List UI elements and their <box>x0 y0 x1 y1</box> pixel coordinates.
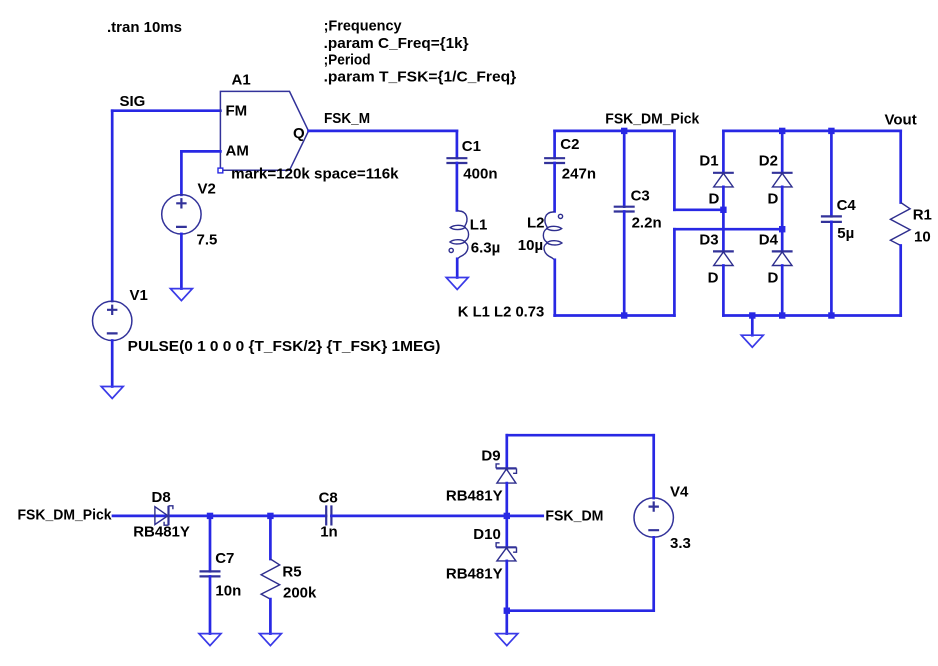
wire D10 base down <box>505 561 508 611</box>
svg-text:C7: C7 <box>215 550 234 567</box>
voltage source V4 <box>634 498 673 537</box>
wire SIG vertical to V1 <box>111 111 114 301</box>
svg-text:400n: 400n <box>463 166 497 183</box>
schottky diode D9 <box>496 464 516 483</box>
svg-text:2.2n: 2.2n <box>632 215 662 232</box>
svg-text:D4: D4 <box>759 231 779 248</box>
inductor L1 <box>449 210 468 259</box>
wire D4 base down <box>781 266 784 316</box>
svg-text:D: D <box>709 190 720 207</box>
wire C7 to ground <box>209 576 212 633</box>
wire C8 right to FSK_DM stub <box>331 515 542 518</box>
svg-text:AM: AM <box>226 142 249 159</box>
wire C4 top pin <box>830 131 833 216</box>
wire AM vertical to V2 <box>180 151 183 194</box>
svg-text:5µ: 5µ <box>837 225 854 242</box>
inductor L2 <box>543 211 562 260</box>
wire D2 base through node B to D4 <box>781 187 784 252</box>
capacitor C3 <box>614 207 635 212</box>
wire V4 top pin <box>652 435 655 498</box>
wire top rail Vout <box>723 130 900 133</box>
svg-text:L2: L2 <box>527 215 545 232</box>
wire D1 base to D3 bar <box>722 187 725 252</box>
capacitor C7 <box>200 571 221 576</box>
wire bottom rail bottom circuit <box>507 609 654 612</box>
junction node B <box>779 226 785 232</box>
svg-text:D3: D3 <box>699 231 718 248</box>
capacitor C4 <box>821 216 842 222</box>
ground below bridge <box>741 335 763 347</box>
wire V2 to ground <box>180 234 183 289</box>
junction D2 top <box>779 128 785 134</box>
junction bottom rail ground <box>504 608 510 614</box>
svg-text:V2: V2 <box>198 180 216 197</box>
wire D3 base down <box>722 266 725 316</box>
wire L2 down to bottom rail <box>553 260 556 316</box>
svg-text:R1: R1 <box>913 207 932 224</box>
svg-text:;Frequency: ;Frequency <box>324 18 403 35</box>
wire R1 top pin <box>899 131 902 203</box>
svg-text:D9: D9 <box>481 447 500 464</box>
unconnected pin marker A1 bottom-left <box>218 168 223 173</box>
modulator A1 body <box>220 91 308 170</box>
wire C1 to L1 <box>456 163 459 210</box>
wire tank bottom rail <box>555 314 675 317</box>
svg-text:D1: D1 <box>699 153 718 170</box>
resistor R1 <box>890 203 910 246</box>
diode D2 <box>772 173 793 187</box>
svg-text:K L1 L2 0.73: K L1 L2 0.73 <box>458 304 545 321</box>
diode D1 <box>713 173 734 187</box>
svg-text:1n: 1n <box>320 523 338 540</box>
svg-text:D8: D8 <box>152 489 171 506</box>
svg-text:200k: 200k <box>283 585 317 602</box>
svg-text:V1: V1 <box>130 287 148 304</box>
svg-text:RB481Y: RB481Y <box>446 488 503 505</box>
svg-text:.tran 10ms: .tran 10ms <box>107 19 182 36</box>
resistor R5 <box>261 559 280 599</box>
junction C3 bottom <box>621 312 627 318</box>
capacitor C8 <box>326 505 331 525</box>
svg-text:10µ: 10µ <box>518 237 543 254</box>
wire tank bottom up <box>673 229 676 315</box>
svg-text:R5: R5 <box>282 563 301 580</box>
svg-text:10n: 10n <box>215 582 241 599</box>
junction node A <box>720 207 726 213</box>
svg-text:Vout: Vout <box>885 111 917 128</box>
svg-text:FM: FM <box>226 103 248 120</box>
capacitor C1 <box>446 158 467 163</box>
wire V4 bottom pin <box>652 537 655 610</box>
junction R5 branch <box>267 513 273 519</box>
wire to C1 top <box>456 131 459 158</box>
wire C2 to L2 <box>553 163 556 211</box>
junction D4 bottom <box>779 312 785 318</box>
junction C4 bottom <box>828 312 834 318</box>
wire ground stub bridge <box>751 316 754 336</box>
ground below V2 <box>170 289 192 301</box>
svg-text:D: D <box>768 190 779 207</box>
wire top rail bottom circuit <box>507 434 654 437</box>
svg-text:.param T_FSK={1/C_Freq}: .param T_FSK={1/C_Freq} <box>324 69 517 86</box>
wire D2 top <box>781 131 784 173</box>
svg-text:D: D <box>708 269 719 286</box>
wire D9 base to D10 <box>505 483 508 548</box>
svg-text:V4: V4 <box>670 484 689 501</box>
wire R1 bottom pin <box>899 246 902 316</box>
svg-text:L1: L1 <box>470 216 488 233</box>
wire C3 bottom pin <box>623 212 626 316</box>
svg-text:7.5: 7.5 <box>197 232 218 249</box>
junction C7 branch <box>207 513 213 519</box>
svg-text:C2: C2 <box>560 136 579 153</box>
wire L1 to ground <box>456 259 459 278</box>
wire C4 bottom pin <box>830 222 833 316</box>
schottky diode D10 <box>496 543 516 561</box>
svg-text:D: D <box>768 269 779 286</box>
ground below V1 <box>101 387 123 399</box>
wire R5 to ground <box>269 599 272 634</box>
wire FSK_DM_Pick to C8 left plate <box>113 515 326 518</box>
svg-text:10: 10 <box>914 228 931 245</box>
svg-text:C1: C1 <box>462 138 481 155</box>
junction C4 top <box>828 128 834 134</box>
svg-text:FSK_DM_Pick: FSK_DM_Pick <box>605 111 700 128</box>
svg-text:Q: Q <box>293 125 305 142</box>
svg-text:3.3: 3.3 <box>670 535 691 552</box>
svg-text:A1: A1 <box>232 72 251 89</box>
junction C3 top <box>621 128 627 134</box>
svg-text:.param C_Freq={1k}: .param C_Freq={1k} <box>324 35 469 52</box>
svg-text:FSK_DM_Pick: FSK_DM_Pick <box>18 506 113 523</box>
wire R5 top pin <box>269 516 272 559</box>
wire C2 top to rail <box>553 131 556 158</box>
ground below D10 <box>496 634 518 646</box>
svg-text:FSK_M: FSK_M <box>324 110 370 127</box>
svg-text:D10: D10 <box>473 526 501 543</box>
svg-text:PULSE(0 1 0 0 0 {T_FSK/2} {T_F: PULSE(0 1 0 0 0 {T_FSK/2} {T_FSK} 1MEG) <box>128 338 441 355</box>
junction D9 D10 node <box>504 513 510 519</box>
junction ground stub <box>749 312 755 318</box>
voltage source V2 <box>162 195 201 234</box>
svg-text:6.3µ: 6.3µ <box>471 240 501 257</box>
svg-text:SIG: SIG <box>120 93 146 110</box>
diode D4 <box>772 251 793 265</box>
wire FSK_M output <box>309 130 457 133</box>
svg-text:C4: C4 <box>837 197 857 214</box>
voltage source V1 <box>93 301 132 340</box>
wire to bridge node B <box>674 228 782 231</box>
svg-text:C3: C3 <box>631 187 650 204</box>
wire ground stub bottom <box>505 611 508 634</box>
svg-text:FSK_DM: FSK_DM <box>545 507 603 524</box>
svg-text:247n: 247n <box>562 166 596 183</box>
svg-text:RB481Y: RB481Y <box>133 524 190 541</box>
capacitor C2 <box>544 158 565 163</box>
wire D9 top pin <box>505 435 508 469</box>
wire AM horizontal <box>181 150 220 153</box>
ground below C7 <box>199 634 221 646</box>
wire C7 top pin <box>209 516 212 571</box>
wire top rail FSK_DM_Pick <box>555 130 675 133</box>
wire bottom rail bridge <box>723 314 900 317</box>
wire SIG horizontal <box>112 109 220 112</box>
diode D3 <box>713 251 734 265</box>
wire down from rail <box>673 131 676 210</box>
diode D8 <box>155 506 173 525</box>
wire to bridge node A <box>674 208 723 211</box>
ground below L1 <box>446 278 468 290</box>
svg-text:;Period: ;Period <box>324 52 371 69</box>
svg-text:D2: D2 <box>759 153 778 170</box>
wire D1 top <box>722 131 725 173</box>
svg-text:RB481Y: RB481Y <box>446 565 503 582</box>
svg-text:mark=120k space=116k: mark=120k space=116k <box>231 165 399 182</box>
wire C3 top pin <box>623 131 626 207</box>
svg-text:C8: C8 <box>319 490 338 507</box>
ground below R5 <box>259 634 281 646</box>
wire V1 to ground <box>111 341 114 387</box>
